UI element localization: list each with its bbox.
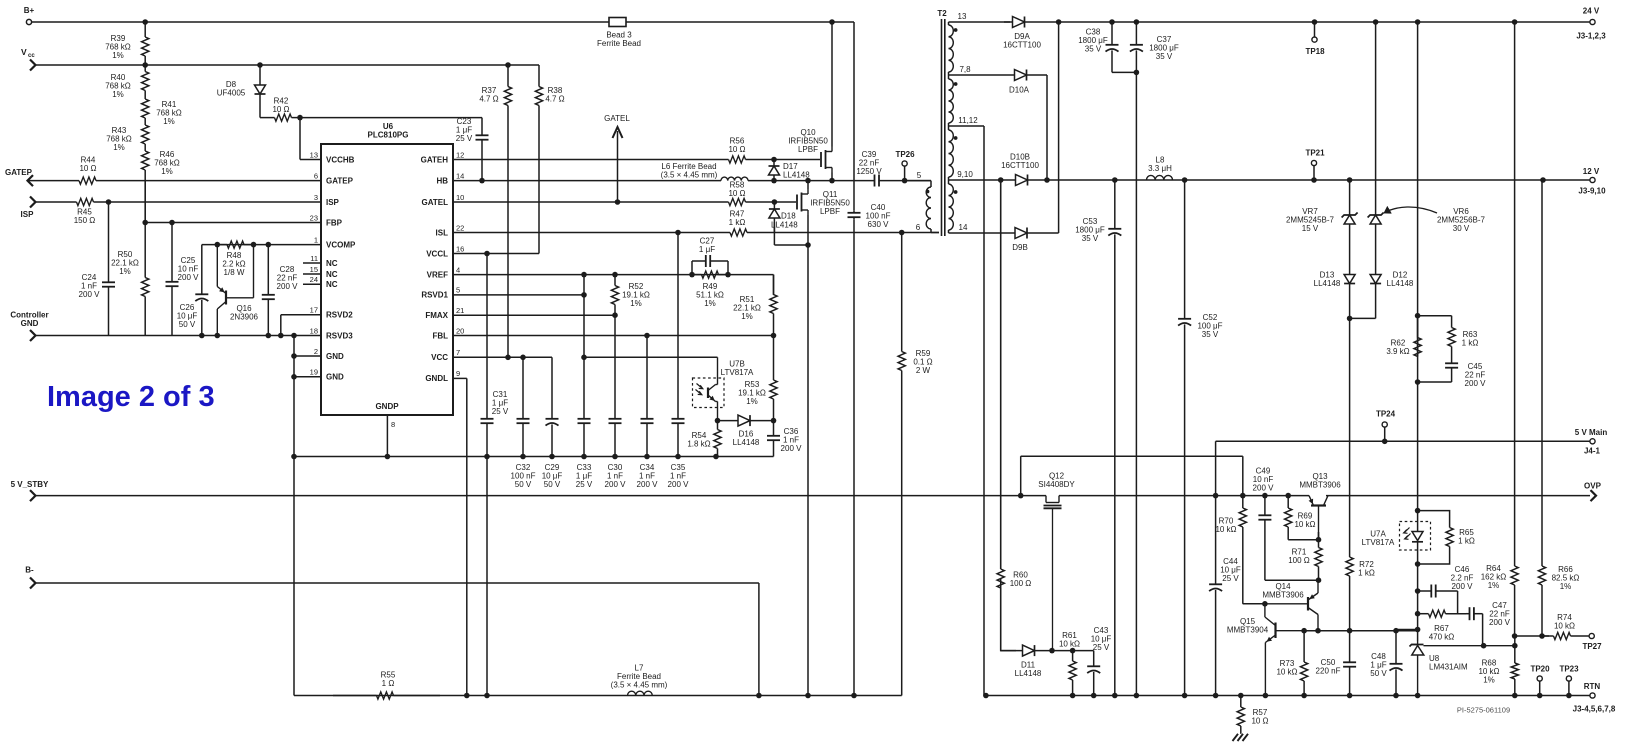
- label T2 pin13: [958, 12, 967, 21]
- wire mid gnd rail: [294, 456, 774, 458]
- resistor R55: [333, 671, 440, 700]
- wire 5VSB line a: [36, 495, 1047, 497]
- svg-text:Image 2 of 3: Image 2 of 3: [47, 381, 215, 413]
- svg-text:D18: D18: [781, 212, 796, 221]
- svg-text:16: 16: [456, 244, 464, 253]
- svg-text:GND: GND: [326, 352, 344, 361]
- junction: [1512, 19, 1518, 25]
- capacitor C50: [1316, 631, 1357, 696]
- wire R62 chain down: [1417, 382, 1419, 511]
- op-amp U7B LTV817A: [693, 357, 755, 420]
- svg-text:21: 21: [456, 306, 464, 315]
- junction: [581, 272, 587, 278]
- node TP24: [1376, 410, 1396, 442]
- node TP26: [895, 150, 915, 181]
- wire GNDL jog: [453, 377, 467, 379]
- junction: [464, 693, 470, 699]
- wire HB line c: [879, 180, 931, 182]
- node TP23: [1559, 665, 1579, 696]
- transformer T2 winding 910-14: [949, 180, 954, 233]
- svg-text:TP26: TP26: [895, 150, 915, 159]
- junction: [675, 230, 681, 236]
- wire bracket across: [1021, 455, 1243, 457]
- svg-text:150 Ω: 150 Ω: [74, 216, 96, 225]
- node 12V terminal: [1578, 167, 1606, 196]
- junction: [1315, 628, 1321, 634]
- junction: [1415, 379, 1421, 385]
- svg-text:1%: 1%: [113, 143, 125, 152]
- diode D9B: [1007, 228, 1059, 253]
- wire C49 corner: [1265, 579, 1319, 581]
- svg-text:18: 18: [310, 326, 318, 335]
- wire Q11 source down: [807, 245, 809, 696]
- wire bottom rail left: [294, 695, 902, 697]
- wire RSVD2 down: [280, 315, 282, 336]
- wire 910 junction down: [1000, 180, 1002, 569]
- label T2 pin78: [959, 65, 971, 74]
- node Vcc terminal: [21, 47, 36, 71]
- svg-text:D10A: D10A: [1009, 86, 1030, 95]
- junction: [291, 333, 297, 339]
- capacitor C38: [1078, 22, 1118, 72]
- svg-text:3.3 μH: 3.3 μH: [1148, 164, 1172, 173]
- wire RSVD2 line: [281, 314, 321, 316]
- svg-text:200 V: 200 V: [1465, 379, 1487, 388]
- svg-text:100 Ω: 100 Ω: [1010, 579, 1032, 588]
- svg-text:1%: 1%: [741, 312, 753, 321]
- svg-text:16CTT100: 16CTT100: [1003, 41, 1041, 50]
- resistor R37: [479, 65, 511, 357]
- resistor R58: [453, 181, 774, 206]
- svg-text:LTV817A: LTV817A: [1362, 538, 1395, 547]
- junction: [1415, 627, 1421, 633]
- resistor R63: [1418, 316, 1479, 359]
- junction: [615, 199, 621, 205]
- svg-text:22: 22: [456, 223, 464, 232]
- resistor R41: [142, 96, 182, 126]
- node B-: [25, 566, 35, 589]
- wire NC stub 24: [303, 283, 321, 285]
- svg-text:1%: 1%: [119, 267, 131, 276]
- svg-text:1%: 1%: [1560, 582, 1572, 591]
- svg-text:200 V: 200 V: [79, 290, 101, 299]
- resistor R64: [1481, 22, 1518, 636]
- junction: [142, 19, 148, 25]
- junction: [1347, 177, 1353, 183]
- svg-text:(3.5 × 4.45 mm): (3.5 × 4.45 mm): [611, 681, 668, 690]
- junction: [771, 178, 777, 184]
- wire RSVD1 line: [453, 294, 584, 296]
- wire HB to primary corner: [905, 180, 931, 182]
- junction: [1112, 693, 1118, 699]
- resistor R74: [1542, 613, 1589, 640]
- node RTN terminal: [1573, 682, 1616, 714]
- junction: [902, 178, 908, 184]
- resistor R47: [453, 210, 939, 237]
- resistor R46: [142, 148, 180, 223]
- label T2 pin14: [959, 223, 968, 232]
- junction: [1301, 693, 1307, 699]
- junction: [829, 19, 835, 25]
- capacitor C31: [481, 254, 509, 457]
- svg-text:2N3906: 2N3906: [230, 313, 259, 322]
- capacitor C52: [1178, 180, 1223, 696]
- wire OVP chain mid: [1349, 318, 1351, 495]
- diode D8 UF4005: [217, 65, 266, 118]
- junction: [1540, 177, 1546, 183]
- svg-text:10 kΩ: 10 kΩ: [1276, 668, 1297, 677]
- wire LED cathode: [1417, 542, 1419, 564]
- wire Q10 drain: [831, 22, 833, 147]
- junction: [1070, 693, 1076, 699]
- junction: [644, 454, 650, 460]
- junction: [1566, 693, 1572, 699]
- svg-text:V: V: [21, 47, 27, 57]
- svg-text:ISL: ISL: [436, 228, 449, 237]
- junction: [1044, 177, 1050, 183]
- svg-text:10: 10: [456, 193, 464, 202]
- wire VR6 arrow: [1384, 207, 1437, 213]
- capacitor C28: [262, 245, 298, 336]
- svg-text:cc: cc: [28, 53, 35, 59]
- svg-text:14: 14: [959, 223, 968, 232]
- wire GND vertical: [293, 336, 295, 696]
- junction: [484, 454, 490, 460]
- svg-text:13: 13: [958, 12, 967, 21]
- capacitor C43: [1087, 626, 1111, 696]
- node TP21: [1305, 149, 1325, 181]
- svg-text:GNDL: GNDL: [425, 374, 448, 383]
- svg-text:J4-1: J4-1: [1584, 447, 1601, 456]
- wire 1112 down: [983, 126, 985, 696]
- svg-text:4.7 Ω: 4.7 Ω: [479, 95, 498, 104]
- svg-text:1.8 kΩ: 1.8 kΩ: [687, 440, 710, 449]
- svg-text:Ferrite Bead: Ferrite Bead: [597, 39, 641, 48]
- junction: [549, 454, 555, 460]
- capacitor C35: [668, 233, 690, 490]
- capacitor C29: [542, 357, 563, 489]
- wire VCOMP line: [202, 244, 321, 246]
- svg-text:200 V: 200 V: [1253, 484, 1275, 493]
- wire VCOMP corner: [201, 244, 203, 246]
- svg-text:25 V: 25 V: [456, 134, 473, 143]
- junction: [1070, 648, 1076, 654]
- svg-text:GNDP: GNDP: [375, 402, 399, 411]
- wire VCCHB to C23: [300, 117, 482, 119]
- svg-text:35 V: 35 V: [1085, 45, 1102, 54]
- junction: [1415, 693, 1421, 699]
- wire VREF line: [453, 274, 774, 276]
- svg-text:1%: 1%: [746, 397, 758, 406]
- junction: [689, 272, 695, 278]
- junction: [1347, 628, 1353, 634]
- junction: [1263, 693, 1269, 699]
- junction: [257, 62, 263, 68]
- capacitor C48: [1370, 630, 1402, 696]
- wire GND2 stub: [294, 355, 321, 357]
- resistor R70: [1215, 496, 1246, 604]
- transistor Q14 MMBT3906: [1243, 580, 1318, 631]
- wire 12V rail: [1047, 179, 1590, 181]
- svg-text:GATEP: GATEP: [326, 176, 354, 185]
- junction: [1213, 493, 1219, 499]
- resistor R57: [1237, 696, 1268, 734]
- diode D11 LL4148: [1001, 645, 1052, 678]
- wire R70 corner: [1243, 603, 1265, 605]
- svg-text:RTN: RTN: [1584, 682, 1601, 691]
- svg-text:2 W: 2 W: [916, 366, 931, 375]
- junction: [1301, 628, 1307, 634]
- svg-text:T2: T2: [937, 9, 947, 18]
- wire pin1112 lead: [949, 125, 985, 127]
- svg-text:LM431AIM: LM431AIM: [1429, 663, 1468, 672]
- zener VR6 2MM5256B-7: [1368, 22, 1486, 272]
- svg-text:TP23: TP23: [1559, 665, 1579, 674]
- resistor R68: [1478, 636, 1518, 696]
- wire D10A down: [1046, 75, 1048, 180]
- svg-text:GND: GND: [326, 373, 344, 382]
- svg-text:20: 20: [456, 326, 464, 335]
- svg-text:GATEL: GATEL: [421, 198, 448, 207]
- junction: [1049, 648, 1055, 654]
- inductor L8: [1147, 156, 1173, 181]
- resistor R73: [1276, 631, 1307, 696]
- svg-text:11: 11: [310, 254, 318, 263]
- svg-text:FBL: FBL: [432, 331, 448, 340]
- resistor R53: [738, 336, 777, 421]
- svg-text:VCOMP: VCOMP: [326, 240, 356, 249]
- resistor R45: [36, 198, 322, 225]
- diode D13 LL4148: [1314, 271, 1355, 319]
- svg-text:ISP: ISP: [21, 210, 35, 219]
- junction: [1415, 313, 1421, 319]
- svg-text:1%: 1%: [630, 299, 642, 308]
- diode D9A 16CTT100: [1003, 17, 1058, 50]
- node TP20: [1530, 665, 1550, 696]
- junction: [1262, 601, 1268, 607]
- junction: [1240, 493, 1246, 499]
- node B+ terminal: [24, 6, 35, 25]
- node secondary phase dot: [954, 190, 958, 194]
- node GATEP: [5, 168, 33, 186]
- junction: [1056, 19, 1062, 25]
- capacitor C24: [79, 202, 115, 336]
- capacitor C23: [456, 117, 489, 181]
- resistor R48: [217, 241, 253, 277]
- svg-text:200 V: 200 V: [1489, 618, 1511, 627]
- wire 5VSB line c: [1326, 495, 1590, 497]
- capacitor C27: [692, 237, 728, 275]
- svg-text:35 V: 35 V: [1156, 52, 1173, 61]
- wire FBL line: [453, 335, 774, 337]
- svg-text:10 Ω: 10 Ω: [728, 145, 745, 154]
- junction: [1347, 316, 1353, 322]
- junction: [1109, 19, 1115, 25]
- svg-text:1 kΩ: 1 kΩ: [1358, 569, 1375, 578]
- resistor R72: [1346, 550, 1375, 631]
- svg-text:B+: B+: [24, 6, 35, 15]
- junction: [581, 355, 587, 361]
- junction: [581, 454, 587, 460]
- node TP18: [1305, 22, 1325, 56]
- svg-text:4: 4: [456, 265, 460, 274]
- svg-text:10 kΩ: 10 kΩ: [1215, 525, 1236, 534]
- label PI number: [1457, 706, 1510, 715]
- svg-text:GATEL: GATEL: [604, 114, 630, 123]
- svg-text:LL4148: LL4148: [783, 171, 810, 180]
- svg-text:200 V: 200 V: [178, 273, 200, 282]
- transformer T2 primary winding: [926, 181, 931, 233]
- junction: [1537, 693, 1543, 699]
- junction: [1415, 508, 1421, 514]
- resistor R59: [898, 233, 933, 696]
- wire NC stub 11: [303, 262, 321, 264]
- wire GNDL down: [466, 378, 468, 695]
- svg-text:200 V: 200 V: [668, 480, 690, 489]
- wire B- line: [36, 582, 759, 584]
- junction: [1415, 561, 1421, 567]
- node 24V terminal: [1576, 7, 1606, 41]
- svg-text:PI-5275-061109: PI-5275-061109: [1457, 706, 1510, 715]
- wire GATEH to gate: [774, 159, 820, 161]
- junction: [1393, 693, 1399, 699]
- wire R62 chain: [1417, 316, 1419, 382]
- wire D9B cathode up: [1058, 22, 1060, 233]
- wire VCC line: [453, 356, 523, 358]
- svg-text:9: 9: [456, 369, 460, 378]
- resistor R38: [535, 65, 564, 254]
- junction: [1539, 633, 1545, 639]
- transistor Q11 IRFIB5N50: [797, 189, 850, 216]
- wire pin13 lead: [949, 21, 1011, 23]
- svg-text:100 Ω: 100 Ω: [1288, 556, 1310, 565]
- transformer T2 winding 1112-910: [949, 126, 954, 180]
- svg-text:19: 19: [310, 368, 318, 377]
- junction: [1112, 177, 1118, 183]
- svg-text:9,10: 9,10: [957, 170, 973, 179]
- node 5V_STBY: [11, 480, 49, 501]
- svg-text:1%: 1%: [163, 117, 175, 126]
- transistor Q15 MMBT3904: [1227, 604, 1304, 696]
- wire Q11 drain: [807, 181, 809, 189]
- junction: [385, 454, 391, 460]
- junction: [1182, 693, 1188, 699]
- svg-text:LL4148: LL4148: [1015, 669, 1042, 678]
- svg-text:RSVD2: RSVD2: [326, 311, 353, 320]
- capacitor C40: [848, 203, 891, 229]
- capacitor C44: [1209, 441, 1241, 695]
- junction: [1134, 693, 1140, 699]
- junction: [715, 418, 721, 424]
- op-amp U6 PLC810PG box: [321, 122, 453, 415]
- junction: [1393, 628, 1399, 634]
- svg-text:8: 8: [391, 420, 395, 429]
- junction: [169, 220, 175, 226]
- junction: [805, 242, 811, 248]
- wire GATEL to gate: [774, 201, 796, 203]
- junction: [1415, 588, 1421, 594]
- junction: [581, 292, 587, 298]
- junction: [215, 333, 221, 339]
- svg-text:GATEH: GATEH: [421, 155, 449, 164]
- svg-text:10 Ω: 10 Ω: [272, 105, 289, 114]
- wire C40 down: [853, 219, 855, 695]
- svg-text:1%: 1%: [161, 167, 173, 176]
- junction: [1373, 19, 1379, 25]
- capacitor C26: [177, 245, 209, 336]
- wire GNDP stub: [386, 415, 388, 457]
- svg-text:5 V_STBY: 5 V_STBY: [11, 480, 49, 489]
- svg-text:1 kΩ: 1 kΩ: [1458, 537, 1475, 546]
- wire divider line: [1515, 635, 1549, 637]
- svg-text:1 μF: 1 μF: [699, 245, 715, 254]
- junction: [1512, 633, 1518, 639]
- wire pin14 lead: [949, 232, 1008, 234]
- svg-text:10 Ω: 10 Ω: [79, 164, 96, 173]
- junction: [142, 62, 148, 68]
- svg-text:15: 15: [310, 265, 318, 274]
- resistor R56: [453, 137, 774, 164]
- wire 24V rail: [1059, 21, 1590, 23]
- svg-text:NC: NC: [326, 280, 338, 289]
- node OVP: [1584, 482, 1602, 502]
- node primary phase dot: [926, 190, 930, 194]
- op-amp U7A LTV817A: [1362, 522, 1431, 551]
- wire VREF corner down: [773, 275, 775, 295]
- wire FBP line: [145, 222, 321, 224]
- resistor R60: [997, 180, 1031, 651]
- junction: [612, 272, 618, 278]
- svg-text:TP27: TP27: [1582, 642, 1602, 651]
- junction: [1316, 577, 1322, 583]
- capacitor C33: [576, 275, 593, 489]
- junction: [612, 312, 618, 318]
- capacitor C46: [1418, 565, 1474, 614]
- junction: [805, 693, 811, 699]
- svg-text:200 V: 200 V: [637, 480, 659, 489]
- junction: [1238, 693, 1244, 699]
- svg-text:TP18: TP18: [1305, 47, 1325, 56]
- junction: [771, 157, 777, 163]
- capacitor C32: [511, 357, 536, 489]
- svg-text:630 V: 630 V: [868, 220, 890, 229]
- wire LED chain down: [1417, 564, 1419, 641]
- svg-text:3: 3: [314, 193, 318, 202]
- wire 5V Main line: [1216, 440, 1590, 442]
- wire NC stub 15: [303, 273, 321, 275]
- label T2 pin1112: [958, 116, 978, 125]
- wire D18 bracket: [774, 244, 808, 246]
- junction: [1512, 693, 1518, 699]
- junction: [899, 230, 905, 236]
- label T2 pin910: [957, 170, 973, 179]
- wire primary bottom: [931, 232, 939, 234]
- diode D12 LL4148: [1370, 271, 1414, 319]
- junction: [251, 242, 257, 248]
- junction: [520, 355, 526, 361]
- svg-text:10 Ω: 10 Ω: [1251, 717, 1268, 726]
- wire LED anode: [1417, 511, 1419, 532]
- svg-text:FBP: FBP: [326, 218, 343, 227]
- wire D12 link: [1350, 317, 1376, 319]
- junction: [1134, 70, 1140, 76]
- transistor Q12 SI4408DY: [1038, 472, 1075, 651]
- svg-text:7: 7: [456, 348, 460, 357]
- capacitor C49: [1253, 467, 1275, 581]
- wire VCC corner: [523, 356, 552, 358]
- svg-text:220 nF: 220 nF: [1316, 667, 1341, 676]
- svg-text:D9B: D9B: [1012, 243, 1028, 252]
